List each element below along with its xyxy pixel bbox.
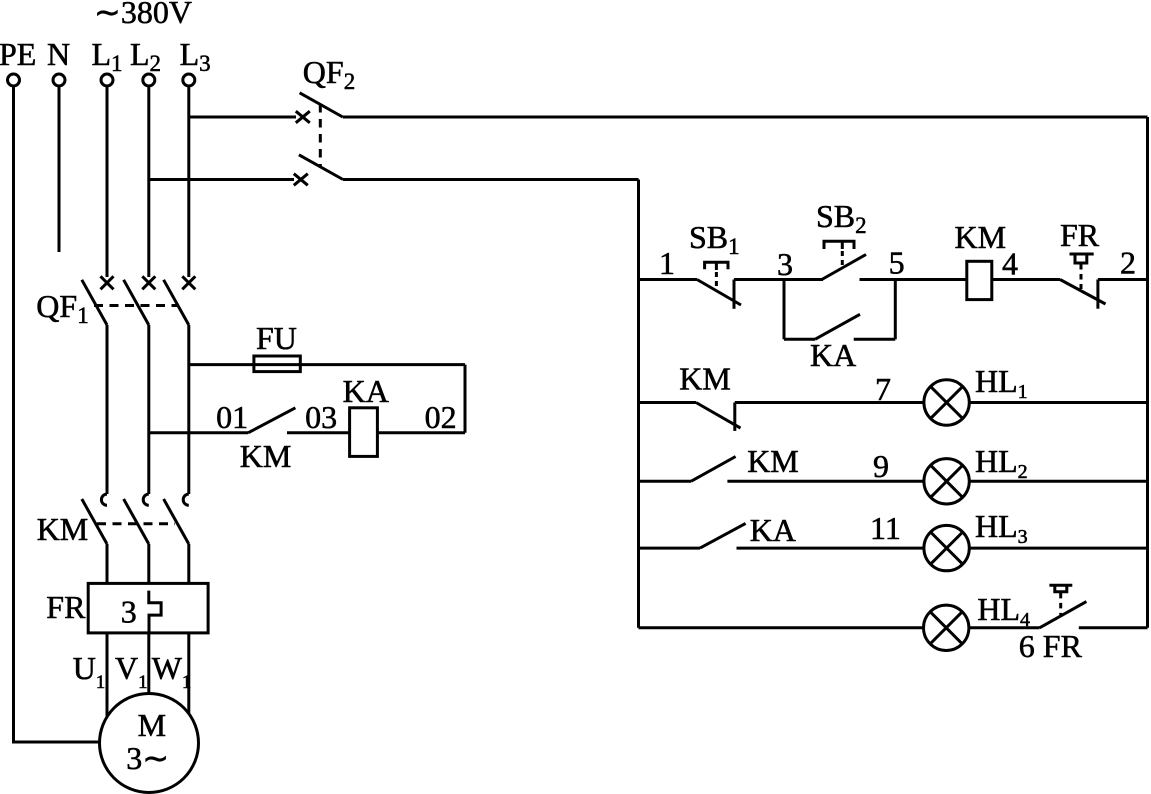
wire contact to KA coil bbox=[287, 431, 350, 434]
svg-text:5: 5 bbox=[889, 245, 905, 281]
svg-text:3∼: 3∼ bbox=[126, 740, 169, 776]
wire rung2 bus to KM contact bbox=[639, 401, 697, 404]
svg-text:KA: KA bbox=[810, 337, 856, 373]
breaker QF1 bbox=[82, 276, 196, 325]
wire L1 QF1 to KM bbox=[106, 325, 109, 494]
coil KM bbox=[967, 261, 992, 299]
svg-text:KM: KM bbox=[955, 219, 1007, 255]
svg-text:N: N bbox=[47, 36, 70, 72]
svg-text:KM: KM bbox=[747, 443, 799, 479]
wire left bus bbox=[637, 180, 640, 628]
wire rung3 to lamp bbox=[727, 480, 924, 483]
wire L3 top bbox=[187, 87, 190, 278]
wire V1 to motor bbox=[147, 633, 150, 694]
wire lamp HL4 to FR contact bbox=[969, 626, 1040, 629]
wire KA coil to fuse branch bbox=[377, 431, 465, 434]
terminal L3 bbox=[183, 74, 195, 86]
wire rung1 bus to SB1 bbox=[639, 278, 698, 281]
terminal N bbox=[53, 74, 65, 86]
wire L3 QF1 to KM bbox=[187, 325, 190, 494]
wire L2 top bbox=[147, 87, 150, 278]
svg-text:4: 4 bbox=[1002, 246, 1018, 282]
wire W1 to motor bbox=[187, 633, 190, 714]
wire FR to right bus (rung5) bbox=[1079, 626, 1148, 629]
lamp HL3 bbox=[924, 525, 969, 570]
contact FR (rung5) bbox=[1040, 585, 1087, 628]
lamp HL1 bbox=[924, 380, 969, 425]
wire SB1 to node3 bbox=[734, 278, 823, 281]
wire fuse branch down bbox=[464, 365, 467, 433]
relay coil KA bbox=[350, 408, 378, 457]
wire rung4 to lamp bbox=[737, 547, 924, 550]
svg-text:01: 01 bbox=[216, 399, 248, 435]
branch bottom wire bbox=[784, 338, 815, 341]
wire rung2 to lamp bbox=[735, 401, 924, 404]
contact KA NO (latch) bbox=[815, 314, 860, 339]
wire lamp HL2 to right bus bbox=[969, 480, 1147, 483]
terminal L1 bbox=[101, 74, 113, 86]
contact KM aux NO bbox=[248, 408, 295, 433]
terminal PE bbox=[8, 74, 20, 86]
wire L3 to fuse bbox=[189, 363, 465, 366]
wire L1 top bbox=[106, 87, 109, 278]
wire SB2 to KM coil bbox=[860, 278, 967, 281]
svg-text:FR: FR bbox=[1043, 628, 1083, 664]
branch node3 down bbox=[783, 280, 786, 340]
fuse FU bbox=[254, 356, 300, 372]
svg-text:FR: FR bbox=[46, 589, 86, 625]
svg-text:FU: FU bbox=[256, 320, 297, 356]
svg-text:∼380V: ∼380V bbox=[94, 0, 192, 30]
contact KA NO (rung4) bbox=[700, 523, 746, 548]
terminal L2 bbox=[143, 74, 155, 86]
wire rung5 bus to lamp bbox=[639, 626, 924, 629]
svg-text:M: M bbox=[138, 707, 166, 743]
wire N bbox=[58, 87, 61, 253]
heater element bbox=[149, 591, 161, 633]
svg-text:FR: FR bbox=[1060, 217, 1100, 253]
lamp HL2 bbox=[924, 459, 969, 504]
svg-text:11: 11 bbox=[870, 510, 901, 546]
svg-text:6: 6 bbox=[1019, 628, 1035, 664]
wire PE down and to motor bbox=[14, 87, 101, 743]
wire L2 QF1 to KM bbox=[147, 325, 150, 494]
breaker QF2 bbox=[294, 93, 343, 186]
svg-text:KA: KA bbox=[343, 373, 389, 409]
svg-text:KM: KM bbox=[679, 361, 731, 397]
svg-text:1: 1 bbox=[659, 245, 675, 281]
thermal relay FR box bbox=[88, 583, 208, 633]
contactor KM main contacts bbox=[82, 494, 189, 544]
wire L2 KM to FR box bbox=[147, 544, 150, 583]
contact KM NC (rung2) bbox=[696, 403, 741, 431]
wire FR to right bus bbox=[1098, 278, 1148, 281]
wire rung3 bus to KM contact bbox=[639, 480, 692, 483]
svg-text:03: 03 bbox=[305, 399, 337, 435]
wire lamp HL3 to right bus bbox=[969, 547, 1147, 550]
svg-text:KM: KM bbox=[37, 511, 89, 547]
svg-text:9: 9 bbox=[873, 448, 889, 484]
wire rung4 bus to KA contact bbox=[639, 547, 701, 550]
wire KA contact to node5 riser bbox=[854, 338, 896, 341]
pushbutton SB1 (NC) bbox=[697, 262, 741, 309]
lamp HL4 bbox=[924, 605, 969, 650]
svg-text:PE: PE bbox=[0, 36, 36, 72]
svg-text:2: 2 bbox=[1120, 245, 1136, 281]
svg-text:3: 3 bbox=[777, 246, 793, 282]
svg-text:7: 7 bbox=[875, 371, 891, 407]
contact KM NO (rung3) bbox=[691, 457, 736, 482]
wire QF2 pole1 to right bus bbox=[343, 116, 1148, 119]
wire L2 to KM aux contact bbox=[149, 431, 248, 434]
branch node5 riser bbox=[894, 280, 897, 340]
svg-text:02: 02 bbox=[425, 399, 457, 435]
svg-text:KM: KM bbox=[240, 438, 292, 474]
wire L1 KM to FR box bbox=[106, 544, 109, 583]
wire L3 to QF2 pole 1 bbox=[189, 116, 296, 119]
wire QF2 pole2 to left bus bbox=[343, 178, 639, 181]
wire L3 KM to FR box bbox=[187, 544, 190, 583]
wire lamp HL1 to right bus bbox=[969, 401, 1147, 404]
wire U1 to motor bbox=[106, 633, 109, 717]
contact FR NC (rung1) bbox=[1060, 254, 1106, 309]
wire L2 to QF2 pole 2 bbox=[149, 178, 294, 181]
pushbutton SB2 (NO) bbox=[822, 241, 866, 279]
svg-text:KA: KA bbox=[750, 512, 796, 548]
wire KM coil to FR contact bbox=[992, 278, 1060, 281]
wire right bus bbox=[1146, 117, 1149, 628]
svg-text:3: 3 bbox=[121, 594, 137, 630]
motor M bbox=[100, 694, 199, 793]
